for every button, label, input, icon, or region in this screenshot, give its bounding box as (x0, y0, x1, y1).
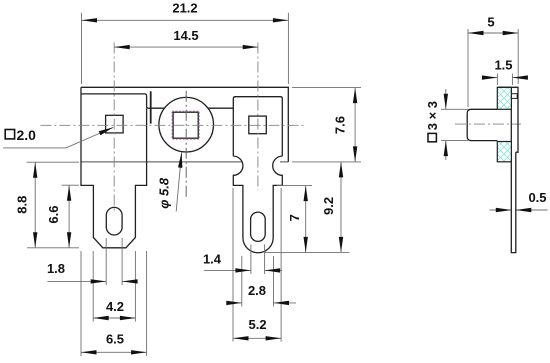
svg-text:3 × 3: 3 × 3 (425, 101, 440, 130)
7 dim (305, 186, 307, 253)
dim 7.6 arrowheads (353, 88, 357, 104)
bend line (150, 91, 152, 123)
strip right of circle (208, 107, 233, 109)
6.6 top ext (62, 184, 80, 186)
square symbol for 3x3 label (rotated at bottom of text) (428, 133, 436, 141)
left tab inner top line (81, 94, 164, 108)
center circle (159, 97, 214, 152)
svg-text:5.2: 5.2 (249, 317, 267, 332)
dim 14.5 arrowheads (114, 45, 130, 49)
21.2 dim (82, 19, 289, 21)
8.8 top ext (27, 161, 80, 163)
part outline: top bar and right edge (81, 87, 288, 252)
leader square2.0 (3, 128, 113, 148)
7 top ext (277, 185, 312, 187)
dim 3x3 arrowheads (side view) (444, 94, 448, 110)
side: 5 dim (468, 32, 518, 34)
square symbol for 2.0 label (5, 130, 14, 139)
6.6 dim (68, 185, 70, 248)
svg-text:0.5: 0.5 (528, 190, 546, 205)
side: 3x3 ext (441, 109, 468, 140)
8.8/6.6 bottom ext (27, 247, 79, 249)
2.8 ext (242, 256, 274, 307)
svg-text:1.8: 1.8 (47, 261, 65, 276)
side: 5 ext (468, 29, 518, 107)
svg-text:6.5: 6.5 (106, 331, 124, 346)
svg-text:5: 5 (487, 14, 494, 29)
dim 5.2 arrowheads (233, 336, 249, 340)
1.8 ext (106, 238, 122, 285)
svg-text:8.8: 8.8 (14, 196, 29, 214)
dim 4.2 arrowheads (93, 316, 109, 320)
magenta cosmetic square (172, 111, 199, 139)
21.2 ext (82, 13, 289, 84)
14.5 dim (114, 46, 258, 48)
side tab outline (467, 87, 518, 252)
dim 0.5 arrowheads (side view) (496, 208, 512, 212)
svg-text:21.2: 21.2 (172, 1, 197, 16)
1.4 dim (204, 269, 282, 271)
side: 1.5 ext (497, 74, 512, 86)
upper hatched block (497, 87, 511, 162)
2.8 dim (227, 302, 296, 304)
center square hole (173, 112, 198, 138)
4.2 ext (93, 251, 135, 322)
svg-text:1.5: 1.5 (494, 57, 512, 72)
svg-text:7: 7 (287, 214, 302, 221)
dim 9.2 arrowheads (339, 162, 343, 178)
right tab square hole (249, 116, 266, 134)
right tab (233, 97, 282, 156)
leader phi5.8 (176, 152, 181, 211)
svg-text:6.6: 6.6 (46, 206, 61, 224)
dim 7 arrowheads (304, 186, 308, 202)
right leg notches + blade (233, 156, 282, 253)
left leg outline (81, 87, 147, 248)
plate (497, 87, 518, 152)
5.2 dim (233, 337, 281, 339)
9.2 dim (340, 162, 342, 253)
left tab square hole (106, 115, 124, 133)
6.5 ext (81, 251, 147, 356)
dim 5 arrowheads (side view) (468, 31, 484, 35)
right slot (251, 212, 266, 241)
dim 1.4 arrowheads (235, 268, 251, 272)
svg-text:1.4: 1.4 (203, 251, 222, 266)
svg-text:2.0: 2.0 (17, 127, 37, 143)
side: 0.5 dim (490, 209, 548, 211)
svg-text:9.2: 9.2 (321, 197, 336, 215)
8.8 dim (34, 162, 36, 248)
7.6 ext (292, 88, 361, 162)
svg-text:2.8: 2.8 (248, 283, 266, 298)
nub (511, 94, 517, 99)
side: 1.5 dim (483, 77, 527, 79)
leader arrowhead for square 2.0 hole (99, 125, 115, 135)
svg-text:7.6: 7.6 (332, 116, 347, 134)
wire: body bottom edge / bend line y=162 (81, 161, 288, 163)
left slot (106, 207, 122, 235)
1.8 dim (47, 280, 137, 282)
dim 6.5 arrowheads (81, 350, 97, 354)
dim 2.8 arrowheads (226, 301, 242, 305)
svg-text:4.2: 4.2 (106, 299, 124, 314)
9.2/7 bottom ext (264, 251, 350, 253)
dim 8.8 arrowheads (33, 162, 37, 178)
5.2 ext (233, 188, 281, 342)
dim 1.8 arrowheads (91, 279, 107, 283)
4.2 dim (93, 317, 135, 319)
dim 21.2 arrowheads (82, 18, 98, 22)
dim 1.5 arrowheads (side view) (482, 75, 498, 79)
7.6 dim (354, 88, 356, 162)
1.4 ext (251, 245, 265, 275)
leader arrowhead for dia 5.8 boss (178, 152, 184, 168)
dim 6.6 arrowheads (67, 185, 71, 201)
svg-text:14.5: 14.5 (173, 28, 198, 43)
svg-text:φ 5.8: φ 5.8 (156, 177, 171, 209)
centerlines (40, 43, 521, 214)
6.5 dim (81, 351, 147, 353)
side: 3x3 dim (445, 89, 447, 160)
